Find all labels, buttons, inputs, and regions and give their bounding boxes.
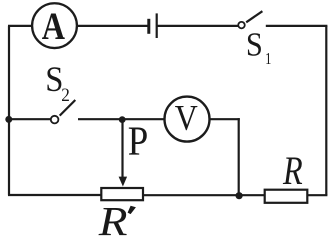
ammeter U1 circle xyxy=(32,3,77,48)
svg-text:A: A xyxy=(42,4,65,48)
svg-text:1: 1 xyxy=(265,50,271,68)
wire resistor R to rheostat R' xyxy=(144,194,265,196)
switch S1 lever xyxy=(246,11,262,22)
voltmeter U2 circle xyxy=(165,97,210,142)
svg-text:V: V xyxy=(175,99,198,138)
label S2 xyxy=(45,60,63,100)
svg-text:2: 2 xyxy=(61,84,70,105)
junction dot left (S2 branch) xyxy=(5,116,12,123)
label P xyxy=(128,119,149,164)
junction dot bottom (voltmeter branch) xyxy=(236,192,243,199)
wire right vertical xyxy=(325,26,327,195)
wire switch S2 to voltmeter xyxy=(78,118,164,120)
battery BT1 long plate xyxy=(156,13,158,38)
switch S2 pivot circle xyxy=(51,116,59,124)
resistor R body xyxy=(265,190,308,203)
wire switch S1 to top-right corner xyxy=(266,25,328,27)
label S1 xyxy=(246,26,263,64)
svg-text:R: R xyxy=(282,148,303,193)
switch S1 pivot circle xyxy=(238,22,245,29)
label R' prime mark xyxy=(128,206,136,214)
battery BT1 short plate xyxy=(147,19,150,34)
wire battery to switch S1 xyxy=(157,25,238,27)
svg-text:S: S xyxy=(45,60,63,100)
wire rheostat R' to bottom-left corner xyxy=(8,194,101,196)
wire ammeter to battery xyxy=(78,25,149,27)
svg-text:P: P xyxy=(128,119,149,164)
rheostat R' body xyxy=(101,188,143,200)
wire bottom-right corner to resistor R xyxy=(308,194,327,196)
wire left to switch S2 xyxy=(9,118,50,120)
junction dot wiper node xyxy=(119,116,126,123)
label R' letter R xyxy=(98,199,128,240)
voltmeter label V xyxy=(175,99,198,138)
wiper arrow head xyxy=(119,177,128,187)
ammeter label A xyxy=(42,4,65,48)
wire wiper vertical xyxy=(121,120,123,179)
switch S2 lever xyxy=(60,100,76,116)
wire left vertical xyxy=(8,26,10,195)
wire voltmeter to right branch xyxy=(210,118,240,120)
svg-text:S: S xyxy=(246,26,263,64)
wire top-left to ammeter xyxy=(8,25,32,27)
label R xyxy=(282,148,303,193)
wire voltmeter branch vertical xyxy=(238,118,240,195)
svg-text:R: R xyxy=(98,199,128,236)
